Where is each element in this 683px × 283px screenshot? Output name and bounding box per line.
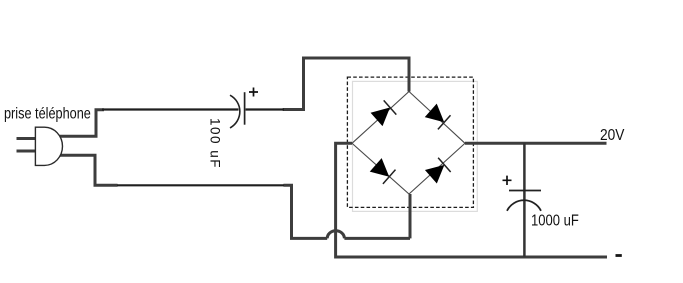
svg-text:prise téléphone: prise téléphone xyxy=(4,105,91,122)
svg-text:100 uF: 100 uF xyxy=(208,118,223,168)
svg-text:1000 uF: 1000 uF xyxy=(531,212,579,230)
svg-text:20V: 20V xyxy=(600,127,625,144)
